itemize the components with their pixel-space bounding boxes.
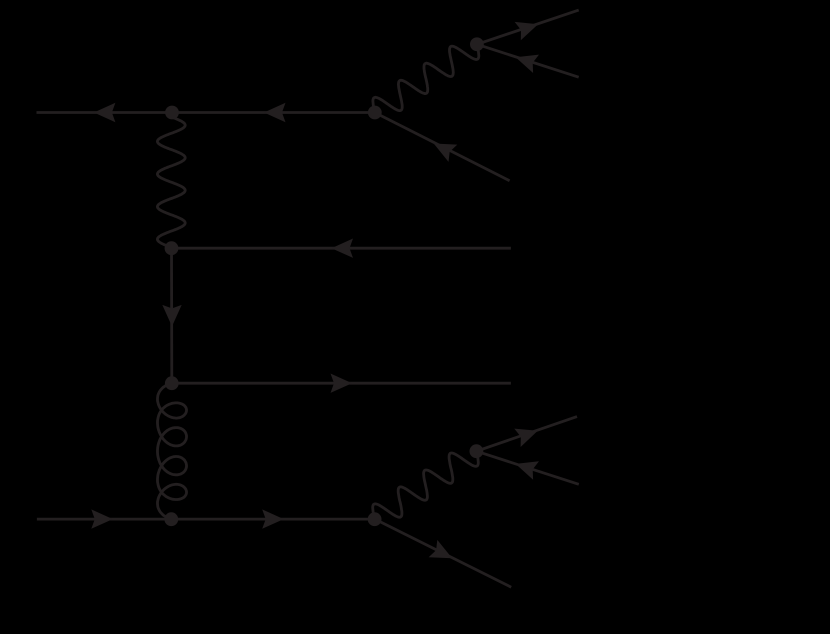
wire: top antiquark line y=112.5 [37, 111, 375, 114]
arrowhead on antiquark propagator (top) [264, 103, 286, 122]
wire: upper pair fermion leg [477, 10, 579, 44]
wire: lower pair antifermion leg [476, 451, 578, 484]
vertex D (gluon-quark, lower left) [164, 512, 178, 526]
photon (wavy line to upper-right pair vertex) [373, 44, 479, 112]
vertex H (photon pair-production, bottom) [470, 444, 484, 458]
arrowhead on incoming antiquark (left) [94, 103, 116, 122]
wire: lower pair fermion leg [476, 417, 577, 452]
vertex C (gluon upper end) [165, 376, 179, 390]
wire: middle lower fermion line y=383 [172, 382, 511, 385]
wire: upper-right antiquark leg [375, 113, 510, 181]
arrowhead on outgoing quark (middle lower) [331, 374, 353, 393]
arrowhead on lower pair fermion (bottom right) [514, 429, 538, 447]
photon (wavy line to lower-right pair vertex) [373, 451, 479, 519]
arrowhead on upper pair fermion (top right) [515, 22, 539, 40]
vertex B (photon lower end) [165, 241, 179, 255]
photon propagator (vertical wavy line) [157, 117, 185, 247]
wire: bottom quark line y=519 [37, 518, 375, 521]
wire: middle upper fermion line y=248 [172, 247, 511, 250]
arrowhead on incoming quark (left) [91, 509, 113, 528]
arrowhead on vertical fermion propagator [162, 305, 181, 327]
vertex A (photon-antiquark, upper left) [165, 106, 179, 120]
gluon propagator (curly line) [158, 383, 187, 519]
vertex G (quark-photon, lower right) [368, 512, 382, 526]
arrowhead on outgoing antiquark (middle upper) [332, 239, 354, 258]
wire: lower-right quark leg [375, 519, 512, 587]
arrowhead on lower pair antifermion (bottom right) [516, 461, 539, 479]
arrowhead on antiquark leg (upper third line) [434, 144, 458, 162]
arrowhead on upper pair antifermion (top right) [516, 55, 539, 73]
vertex F (photon pair-production, top) [470, 37, 484, 51]
arrowhead on quark leg (lower third line) [429, 540, 453, 558]
wire: upper pair antifermion leg [477, 44, 579, 77]
vertex E (antiquark-photon, upper right) [368, 106, 382, 120]
arrowhead on quark propagator (bottom) [262, 509, 284, 528]
wire: vertical fermion propagator [170, 248, 173, 383]
